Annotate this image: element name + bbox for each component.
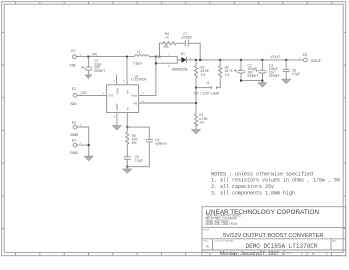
node C3 bottom <box>261 80 263 82</box>
svg-text:E3: E3 <box>72 120 76 124</box>
svg-text:10: 10 <box>165 36 169 40</box>
ground below C1 <box>85 75 91 79</box>
svg-text:LT1370CR: LT1370CR <box>131 78 147 82</box>
svg-text:E4: E4 <box>72 139 76 143</box>
node C2 tap <box>240 59 242 61</box>
U1 Vc pin wire <box>126 113 128 128</box>
node L1 out <box>155 56 157 58</box>
ground below E3 E4 <box>84 156 93 161</box>
U1 NFB stub <box>116 74 118 85</box>
svg-text:0.1µF: 0.1µF <box>135 159 143 163</box>
wire R2 to FB node <box>195 88 197 114</box>
wire U1 Vin pin <box>126 57 128 85</box>
node C6 tap <box>285 59 287 61</box>
svg-text:KEMET: KEMET <box>94 69 105 73</box>
wire VOUT rail <box>187 59 304 61</box>
svg-text:TITLE: TITLE <box>203 230 209 232</box>
notes text <box>211 171 340 196</box>
svg-text:GND: GND <box>115 103 119 111</box>
ground below U1 <box>112 126 121 130</box>
node C3 tap <box>261 59 263 61</box>
ground below C5 <box>123 169 132 173</box>
svg-text:3. all components 1.8mm high: 3. all components 1.8mm high <box>211 191 295 197</box>
svg-text:E1: E1 <box>71 49 75 53</box>
node C5 bottom <box>126 166 128 168</box>
wire VIN rail E1 to L1 <box>76 56 134 58</box>
wire E4 join <box>77 145 89 156</box>
capacitor C6 <box>283 60 301 79</box>
svg-text:KEMET: KEMET <box>269 74 280 78</box>
svg-text:KEMET: KEMET <box>248 74 259 78</box>
op-amp U1 LT1370CR body <box>107 75 148 113</box>
capacitor C3 <box>256 60 280 81</box>
node R2 tap <box>195 59 197 61</box>
svg-text:S/D: S/D <box>71 102 77 106</box>
svg-text:5V / 12V LINK: 5V / 12V LINK <box>194 91 220 96</box>
node VIN junction <box>87 56 89 58</box>
node R3 tap <box>219 59 221 61</box>
svg-text:A: A <box>206 244 209 249</box>
svg-text:S/D: S/D <box>82 91 88 95</box>
svg-text:5%: 5% <box>164 45 169 49</box>
title block <box>202 207 346 257</box>
ground below C2 C3 <box>258 83 267 87</box>
svg-text:7.5µH: 7.5µH <box>133 62 142 66</box>
capacitor C5 <box>124 155 143 167</box>
capacitor C4 optional <box>127 127 166 167</box>
svg-text:J1: J1 <box>206 81 210 85</box>
svg-text:VIN: VIN <box>92 53 98 57</box>
svg-text:Vin: Vin <box>125 90 129 95</box>
terminal E2 <box>71 87 82 106</box>
svg-text:E5: E5 <box>303 53 307 57</box>
svg-text:5%: 5% <box>132 141 137 145</box>
svg-text:1%: 1% <box>199 120 204 124</box>
diode D1 symbol <box>172 52 192 72</box>
node snubber tap <box>199 59 201 61</box>
wire L1 to D1 <box>149 56 156 58</box>
svg-text:NFB: NFB <box>115 88 119 94</box>
terminal E5 <box>299 53 322 63</box>
svg-text:1000pF: 1000pF <box>181 36 192 40</box>
U1 pin labels <box>108 88 138 110</box>
svg-text:1%: 1% <box>201 73 206 77</box>
svg-text:VOUT: VOUT <box>270 55 281 59</box>
svg-text:of: of <box>312 251 314 255</box>
wire VSW from U1 to D1 <box>139 63 156 95</box>
svg-text:L1: L1 <box>137 50 141 54</box>
node VSW joint <box>155 62 157 64</box>
jumper J1 <box>194 78 220 96</box>
svg-text:2. all capacitors 25v: 2. all capacitors 25v <box>211 184 274 190</box>
svg-text:VIN: VIN <box>69 64 75 68</box>
resistor R5 <box>126 127 138 157</box>
resistor R3 <box>219 60 234 78</box>
svg-text:optional: optional <box>155 142 166 146</box>
svg-text:E2: E2 <box>72 87 76 91</box>
capacitor C2 <box>234 60 258 81</box>
svg-text:Vsw: Vsw <box>131 94 138 98</box>
svg-text:1. all resistors values in ohm: 1. all resistors values in ohms , 1/8w ,… <box>211 178 340 184</box>
svg-text:(408) 434 - 0507 FAX: (408) 434 - 0507 FAX <box>206 222 238 226</box>
node E4 junction <box>88 144 90 146</box>
ground below C6 <box>282 79 291 83</box>
node FB <box>195 102 197 104</box>
node Vc <box>126 126 128 128</box>
svg-text:VOUT: VOUT <box>311 59 322 63</box>
capacitor C1 <box>82 57 106 75</box>
svg-text:Vc: Vc <box>125 106 129 110</box>
terminal E4 <box>70 139 82 156</box>
wire FB <box>139 102 196 104</box>
svg-text:Sheet: Sheet <box>286 251 292 254</box>
svg-text:Document Number: Document Number <box>216 240 235 243</box>
terminal E1 <box>69 49 81 67</box>
svg-text:S/S: S/S <box>108 94 113 98</box>
U1 GND pin wire <box>116 113 118 126</box>
terminal E3 <box>70 120 82 137</box>
node U1 Vin tap <box>126 56 128 58</box>
node J1 left <box>195 87 197 89</box>
svg-text:D1: D1 <box>181 52 185 56</box>
diode D1 body rectangle <box>156 54 177 68</box>
svg-text:MBRD835L: MBRD835L <box>172 67 189 71</box>
wire C2 C3 bottoms <box>241 81 262 83</box>
svg-text:DEMO DC185A LT1370CR: DEMO DC185A LT1370CR <box>246 243 318 250</box>
svg-text:1%: 1% <box>225 73 230 77</box>
resistor R2 <box>194 60 209 88</box>
snubber capacitor C7 <box>181 32 200 60</box>
inductor L1 <box>133 50 149 66</box>
svg-text:GND: GND <box>70 151 79 155</box>
svg-text:Monday, January 27, 1997: Monday, January 27, 1997 <box>220 251 279 257</box>
svg-text:4.7µF: 4.7µF <box>292 72 300 76</box>
svg-text:5V/12V OUTPUT BOOST CONVERTER: 5V/12V OUTPUT BOOST CONVERTER <box>223 233 323 239</box>
svg-text:NOTES : unless otherwise speci: NOTES : unless otherwise specified <box>211 171 313 177</box>
wire E2 to U1 <box>77 94 107 96</box>
wire E3 down <box>77 127 89 145</box>
svg-text:FB: FB <box>133 101 137 105</box>
node C2 bottom <box>240 80 242 82</box>
ground below R1 <box>192 130 201 134</box>
svg-text:GND: GND <box>70 133 79 137</box>
resistor R1 <box>194 113 208 129</box>
snubber resistor R4 <box>160 32 185 57</box>
svg-text:Date:: Date: <box>204 251 210 254</box>
